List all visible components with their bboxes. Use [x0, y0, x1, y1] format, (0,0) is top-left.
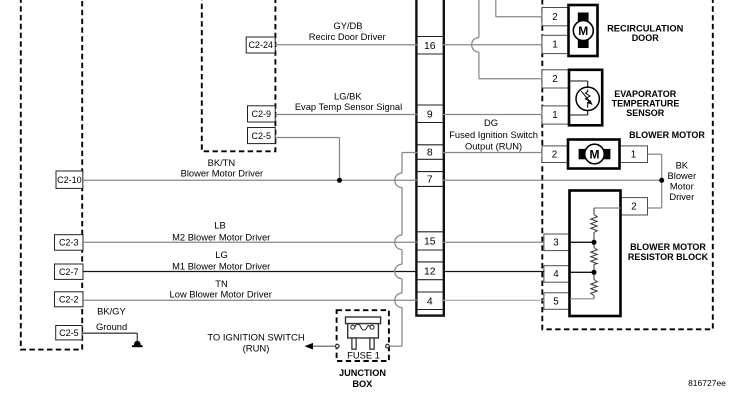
svg-text:16: 16 [424, 41, 436, 52]
svg-text:Motor: Motor [670, 181, 694, 191]
svg-text:C2-7: C2-7 [59, 267, 79, 277]
svg-text:C2-5: C2-5 [59, 328, 79, 338]
svg-text:JUNCTION: JUNCTION [339, 368, 386, 378]
svg-text:BK/GY: BK/GY [97, 307, 126, 317]
svg-text:12: 12 [424, 266, 436, 277]
svg-text:1: 1 [552, 110, 557, 121]
svg-text:5: 5 [553, 296, 559, 307]
svg-text:C2-2: C2-2 [59, 295, 79, 305]
svg-text:M: M [578, 24, 588, 38]
svg-text:M1 Blower Motor Driver: M1 Blower Motor Driver [172, 262, 270, 272]
svg-text:LB: LB [214, 220, 225, 230]
svg-text:TEMPERATURE: TEMPERATURE [612, 99, 680, 109]
svg-text:15: 15 [424, 237, 436, 248]
svg-text:RECIRCULATION: RECIRCULATION [607, 24, 684, 34]
svg-text:Blower: Blower [668, 171, 697, 181]
svg-text:LG/BK: LG/BK [334, 91, 362, 101]
svg-text:8: 8 [427, 148, 433, 159]
svg-text:Low Blower Motor Driver: Low Blower Motor Driver [170, 290, 272, 300]
svg-text:LG: LG [215, 250, 227, 260]
svg-text:DG: DG [484, 118, 498, 128]
svg-text:7: 7 [427, 175, 433, 186]
svg-text:TN: TN [215, 279, 227, 289]
svg-text:GY/DB: GY/DB [333, 21, 362, 31]
svg-text:C2-24: C2-24 [248, 40, 273, 50]
svg-text:BK/TN: BK/TN [208, 158, 236, 168]
svg-text:(RUN): (RUN) [243, 343, 270, 354]
svg-text:BK: BK [676, 160, 689, 170]
svg-text:M: M [590, 147, 600, 161]
svg-text:C2-3: C2-3 [59, 238, 79, 248]
svg-text:BLOWER MOTOR: BLOWER MOTOR [630, 242, 706, 252]
svg-text:RESISTOR BLOCK: RESISTOR BLOCK [628, 252, 709, 262]
svg-text:Recirc Door Driver: Recirc Door Driver [309, 32, 386, 42]
svg-text:Blower Motor Driver: Blower Motor Driver [181, 168, 264, 178]
svg-text:2: 2 [552, 149, 557, 160]
svg-text:TO IGNITION SWITCH: TO IGNITION SWITCH [207, 333, 305, 344]
svg-text:C2-9: C2-9 [252, 109, 272, 119]
svg-text:SENSOR: SENSOR [626, 108, 665, 118]
svg-text:M2 Blower Motor Driver: M2 Blower Motor Driver [172, 232, 270, 242]
svg-text:C2-5: C2-5 [252, 131, 272, 141]
svg-text:1: 1 [552, 40, 557, 51]
svg-text:4: 4 [427, 296, 433, 307]
svg-text:FUSE 1: FUSE 1 [347, 350, 380, 360]
svg-text:9: 9 [427, 109, 433, 120]
svg-text:EVAPORATOR: EVAPORATOR [614, 89, 677, 99]
svg-text:BLOWER MOTOR: BLOWER MOTOR [629, 130, 705, 140]
svg-text:BOX: BOX [352, 379, 373, 389]
svg-text:2: 2 [631, 202, 636, 213]
svg-text:C2-10: C2-10 [57, 175, 82, 185]
svg-text:1: 1 [631, 149, 636, 160]
svg-text:4: 4 [553, 269, 559, 280]
svg-text:Fused Ignition Switch: Fused Ignition Switch [449, 130, 538, 140]
svg-text:816727ee: 816727ee [688, 378, 726, 388]
svg-text:3: 3 [553, 238, 559, 249]
svg-text:2: 2 [552, 12, 557, 23]
svg-text:DOOR: DOOR [632, 33, 660, 43]
svg-text:Ground: Ground [96, 322, 127, 332]
svg-text:2: 2 [552, 74, 557, 85]
svg-text:Evap Temp Sensor Signal: Evap Temp Sensor Signal [295, 102, 402, 112]
svg-text:Output (RUN): Output (RUN) [465, 142, 522, 152]
svg-text:Driver: Driver [669, 192, 694, 202]
